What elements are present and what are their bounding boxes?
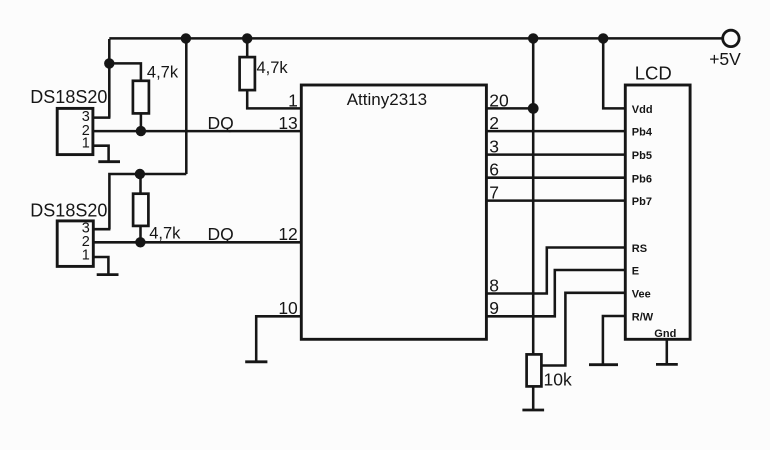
svg-text:DS18S20: DS18S20 [30,87,107,107]
+5V terminal [723,30,739,46]
wire pin3 to Pb5 [486,153,625,156]
svg-text:4,7k: 4,7k [149,225,181,243]
wire R/W to ground [603,316,625,365]
svg-text:7: 7 [489,183,499,203]
wire pin2 to Pb4 [486,130,625,133]
wire 10k bottom lead [532,386,535,410]
sensor DS18S20 #2 box [57,221,93,267]
svg-text:DQ: DQ [208,224,234,244]
node junction R1 tap [104,58,114,68]
wire Vdd riser [603,38,625,108]
node junction R1/DQ1 [136,126,146,136]
svg-text:1: 1 [82,136,90,152]
wire R2 top lead [246,38,249,57]
svg-text:4,7k: 4,7k [257,59,289,77]
wire DQ1 sensor1 pin2 to pin13 [93,130,301,133]
svg-text:Pb4: Pb4 [632,127,653,139]
svg-text:Pb5: Pb5 [632,150,652,162]
wire R3 top lead [139,174,142,194]
svg-text:8: 8 [489,276,499,296]
node junction rail R2 [242,33,252,43]
ground R/W [589,363,618,366]
svg-text:10: 10 [278,298,298,318]
wire +5V top rail [109,37,723,40]
wire R1 bottom lead [140,113,143,131]
node junction rail Vdd riser [598,33,608,43]
svg-text:R/W: R/W [632,312,654,324]
node junction rail riser2 [181,33,191,43]
resistor R3 4,7k body [133,194,148,226]
wire sensor1 pin1 to ground [93,146,109,162]
svg-text:2: 2 [489,113,499,133]
svg-text:E: E [632,266,639,278]
wire pin9 to E [486,270,625,316]
sensor DS18S20 #1 box [57,108,93,154]
wire DQ2 sensor2 pin2 to pin12 [93,241,301,244]
svg-text:LCD: LCD [635,62,672,83]
wire +5V riser to 10k [532,38,535,354]
node junction rail 10k riser [528,33,538,43]
svg-text:1: 1 [288,91,298,111]
ground pin10 [245,360,267,363]
wire riser to sensor2 rail [185,38,188,174]
wire R1 branch [109,63,141,80]
wire 10k wiper to Vee [541,293,625,366]
wire sensor2 supply rail [93,174,186,229]
ground 10k [522,409,544,412]
resistor R1 4,7k body [133,81,149,114]
wire R3 bottom lead [139,226,142,242]
svg-text:3: 3 [489,137,499,157]
svg-text:10k: 10k [544,369,572,389]
node junction pin20/+5V [528,103,539,114]
wire sensor2 pin1 to ground [93,257,109,275]
svg-text:6: 6 [489,160,499,180]
wire pin10 to ground [256,316,301,362]
resistor R4 10k body [527,354,542,386]
wire pin8 to RS [486,248,625,294]
ground LCD Gnd [656,363,678,366]
svg-text:Pb6: Pb6 [632,173,652,185]
wire sensor1 pin3 riser [93,39,111,118]
node junction R3 tap [135,169,145,179]
svg-text:Vee: Vee [632,288,651,300]
wire pin20 [486,107,533,110]
resistor R2 4,7k body [240,57,255,90]
svg-text:Vdd: Vdd [632,104,653,116]
LCD module box [625,85,690,339]
ground sensor1 [98,160,120,163]
svg-text:4,7k: 4,7k [147,63,179,81]
wire pin7 to Pb7 [486,199,625,202]
svg-text:13: 13 [278,113,297,133]
wire LCD Gnd pin [666,339,669,364]
svg-text:Gnd: Gnd [654,328,676,340]
svg-text:+5V: +5V [709,49,741,69]
IC U1 Attiny2313 box [301,85,486,339]
svg-text:RS: RS [632,243,647,255]
svg-text:9: 9 [489,298,499,318]
svg-text:1: 1 [82,247,90,263]
wire pin6 to Pb6 [486,176,625,179]
wire R2 to pin1 [247,90,301,108]
svg-text:DQ: DQ [208,113,234,133]
svg-text:DS18S20: DS18S20 [30,201,107,221]
node junction R3/DQ2 [135,237,145,247]
svg-text:Pb7: Pb7 [632,196,652,208]
svg-text:12: 12 [278,224,297,244]
svg-text:Attiny2313: Attiny2313 [347,90,427,109]
svg-text:20: 20 [489,91,509,111]
ground sensor2 [97,273,119,276]
